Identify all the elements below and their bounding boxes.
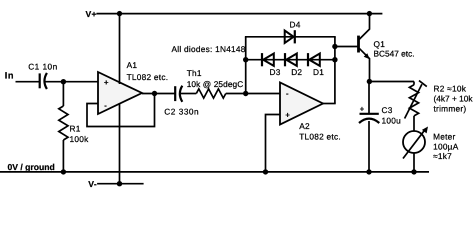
svg-text:D1: D1 (313, 67, 324, 77)
svg-text:+: + (285, 110, 290, 119)
node junction Q1 emitter/C3/R2 (367, 79, 372, 84)
diode D2 (285, 53, 297, 66)
wire emitter node down to C3 (368, 82, 370, 114)
wire lower diode branch (246, 59, 335, 61)
diode D1 (308, 53, 320, 66)
svg-text:R2 ≈10k: R2 ≈10k (434, 84, 467, 94)
svg-text:C1 10n: C1 10n (28, 61, 57, 71)
wire A1 V- supply pin down to V- rail (119, 103, 121, 184)
svg-text:A1: A1 (127, 60, 138, 70)
svg-text:V+: V+ (85, 9, 96, 19)
svg-text:10k @ 25degC: 10k @ 25degC (187, 79, 244, 89)
node junction V+/Q1 collector (367, 11, 372, 16)
capacitor C3 (electrolytic) (359, 114, 379, 123)
wire emitter node to R2 (369, 81, 414, 83)
wire Th1 to A2 inverting input (226, 93, 281, 95)
wire A2 output (323, 103, 336, 105)
node junction left vertical/lower diode branch (243, 57, 248, 62)
wire meter to ground (413, 153, 415, 172)
node junction ground/C3 (366, 169, 371, 174)
svg-text:+: + (360, 104, 365, 113)
node junction V-/A1 supply (117, 181, 122, 186)
wire A1 feedback loop output to inverting input (87, 94, 155, 127)
wire C3 to ground (368, 121, 370, 172)
svg-text:100u: 100u (382, 116, 402, 126)
node junction C1/R1 (61, 79, 66, 84)
resistor R1 (59, 106, 68, 140)
svg-text:D4: D4 (290, 19, 301, 29)
capacitor C2 (175, 86, 182, 102)
node junction ground/meter (411, 169, 416, 174)
node junction A1 output/feedback (152, 91, 157, 96)
svg-text:V-: V- (88, 179, 97, 189)
svg-text:C3: C3 (382, 105, 393, 115)
svg-text:R1: R1 (70, 123, 81, 133)
wire diode network left vertical (245, 37, 247, 94)
svg-text:D3: D3 (270, 67, 281, 77)
node junction right vertical/Q1 base (332, 44, 337, 49)
wire C2 to Th1 (181, 93, 197, 95)
wire D4 branch (245, 36, 336, 38)
svg-text:0V / ground: 0V / ground (8, 162, 55, 172)
net 0V ground rail (0, 171, 429, 173)
svg-text:Meter: Meter (433, 132, 455, 142)
svg-text:+: + (104, 78, 109, 87)
svg-text:Q1: Q1 (374, 39, 386, 49)
svg-text:C2 330n: C2 330n (164, 106, 199, 116)
wire R1 to ground (62, 140, 64, 172)
op-amp A1 (98, 72, 142, 114)
diode D4 (285, 30, 295, 43)
wire A1 V+ supply pin (119, 14, 121, 84)
svg-text:≈1k7: ≈1k7 (433, 151, 452, 161)
svg-text:100µA: 100µA (433, 141, 459, 151)
svg-text:Th1: Th1 (187, 68, 202, 78)
wire C1 to A1 plus input (45, 81, 98, 83)
net V- rail (97, 183, 144, 185)
node junction Th1/diode network (243, 91, 248, 96)
net V+ rail (97, 13, 383, 15)
node junction right vertical/lower diode branch (332, 57, 337, 62)
op-amp A2 (280, 83, 323, 125)
node junction V+/A1 supply (117, 11, 122, 16)
wire A1 output (142, 93, 175, 95)
node junction ground/A2 plus input (263, 169, 268, 174)
thermistor Th1 (196, 89, 226, 98)
wire In to C1 (16, 81, 40, 83)
capacitor C1 (40, 73, 47, 89)
wire R2 to meter (413, 116, 415, 131)
svg-text:TL082 etc.: TL082 etc. (127, 72, 169, 82)
svg-text:(4k7 + 10k: (4k7 + 10k (434, 94, 474, 104)
wire diode network right vertical / A2 output to Q1 base (334, 37, 336, 104)
wire junction down to R1 (62, 82, 64, 106)
svg-text:TL082 etc.: TL082 etc. (299, 132, 341, 142)
svg-text:In: In (5, 71, 14, 81)
svg-text:100k: 100k (70, 134, 90, 144)
wire Q1 base (335, 46, 358, 48)
wire A2 plus input to ground (266, 115, 281, 172)
transistor Q1 (359, 14, 370, 82)
meter M1 (moving coil) (403, 127, 428, 159)
node junction ground/R1 (61, 169, 66, 174)
svg-text:BC547 etc.: BC547 etc. (374, 48, 415, 58)
svg-text:A2: A2 (299, 121, 310, 131)
diode D3 (262, 53, 274, 66)
svg-text:trimmer): trimmer) (434, 104, 467, 114)
svg-text:D2: D2 (291, 67, 302, 77)
resistor R2 (trimmer) (405, 81, 427, 119)
svg-text:All diodes: 1N4148: All diodes: 1N4148 (172, 44, 246, 54)
